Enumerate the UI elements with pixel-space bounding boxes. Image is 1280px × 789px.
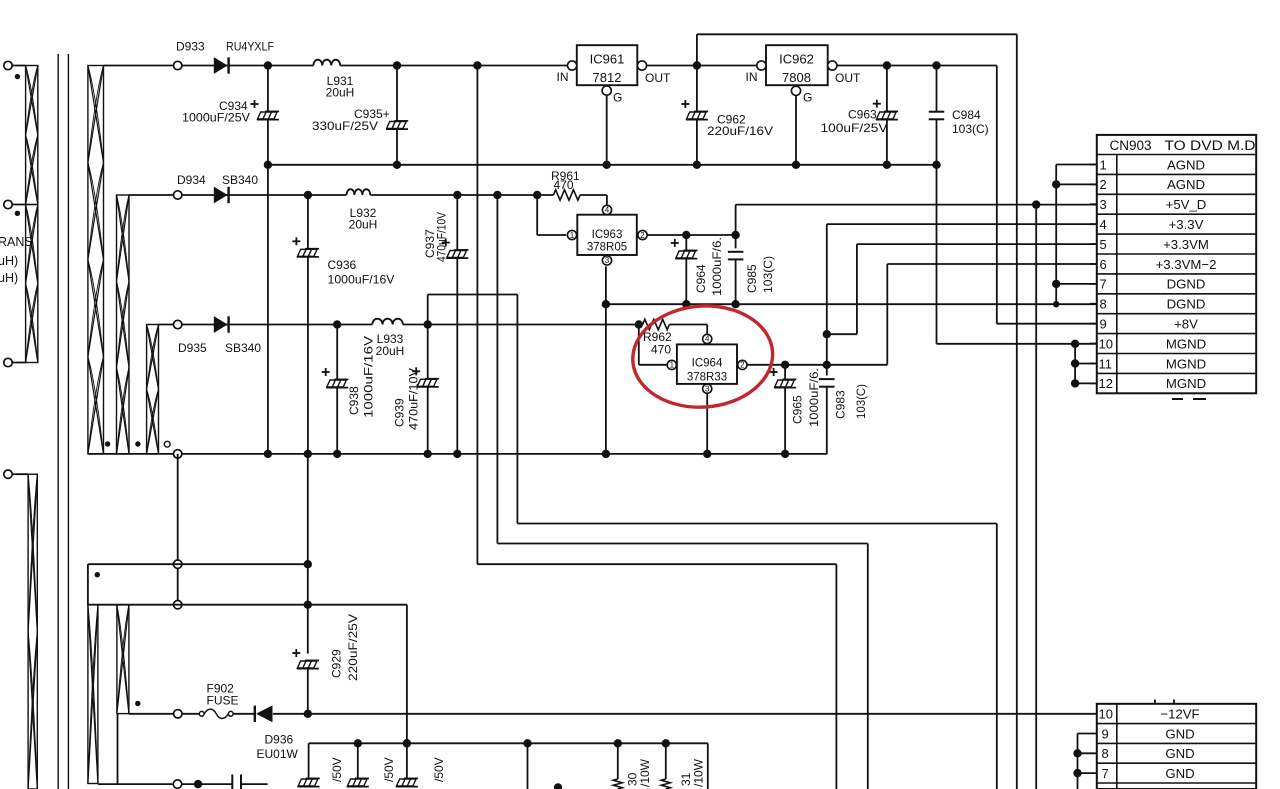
svg-text:8: 8 xyxy=(1100,297,1107,312)
svg-text:+5V_D: +5V_D xyxy=(1166,197,1207,212)
svg-text:6: 6 xyxy=(1100,257,1107,272)
marks below CN903 xyxy=(1172,398,1183,400)
svg-text:1000uF/16V: 1000uF/16V xyxy=(362,336,376,418)
terminal circle D934 rail xyxy=(174,191,182,199)
svg-text:378R05: 378R05 xyxy=(587,242,627,254)
capacitor C929 xyxy=(305,659,319,661)
wire net2 run xyxy=(497,543,867,545)
node pin2 xyxy=(1052,180,1060,188)
svg-text:IN: IN xyxy=(746,70,758,84)
svg-text:SB340: SB340 xyxy=(225,341,261,355)
wire +15V vertical xyxy=(476,66,478,565)
svg-text:220uF/16V: 220uF/16V xyxy=(707,124,773,138)
transformer bottom secondary winding A2 xyxy=(88,605,98,784)
svg-text:103(C): 103(C) xyxy=(952,122,989,136)
wire right end drop xyxy=(707,743,709,789)
svg-text:100uF/25V: 100uF/25V xyxy=(821,121,888,135)
node C938 top xyxy=(333,320,341,328)
node C985 top xyxy=(731,231,739,239)
transformer bottom primary winding xyxy=(28,474,37,789)
node link xyxy=(304,560,312,568)
diode D935 xyxy=(214,316,228,333)
transformer primary polarity dots xyxy=(15,74,20,79)
capacitor C934 xyxy=(267,66,269,112)
svg-text:MGND: MGND xyxy=(1166,376,1206,391)
inductor L933 xyxy=(372,319,403,325)
svg-text:2: 2 xyxy=(640,231,645,240)
inductor L931 xyxy=(313,60,340,66)
svg-text:/10W: /10W xyxy=(692,758,706,787)
wire IC963 pin3 ground xyxy=(605,266,607,454)
capacitor bottom 3 xyxy=(406,777,408,779)
wire pin5 +3.3VM run xyxy=(857,243,1097,245)
wire IC964 pin3 ground xyxy=(706,393,708,454)
node C935 top xyxy=(393,61,401,69)
wire 78xx ground rail xyxy=(268,164,937,166)
svg-text:470: 470 xyxy=(554,178,574,192)
svg-text:uH): uH) xyxy=(0,254,18,268)
resistor R962 xyxy=(643,319,670,329)
svg-text:C983: C983 xyxy=(834,390,848,419)
svg-text:D936: D936 xyxy=(265,733,294,747)
terminal circle bottom edge xyxy=(173,780,181,788)
svg-text:C938: C938 xyxy=(347,386,361,415)
wire primary taps xyxy=(12,65,26,67)
wire bottom edge line xyxy=(98,783,232,785)
transformer secondary winding A xyxy=(88,66,104,454)
svg-text:MGND: MGND xyxy=(1166,356,1206,371)
svg-text:11: 11 xyxy=(1099,356,1113,371)
bottom winding polarity dots xyxy=(95,572,100,577)
wire IC964 pin2 out xyxy=(747,364,887,366)
wire link corner xyxy=(87,564,89,605)
resistor R931 xyxy=(665,743,667,779)
node C964 top xyxy=(682,231,690,239)
svg-text:+3.3V: +3.3V xyxy=(1169,217,1204,232)
svg-text:1000uF/6.: 1000uF/6. xyxy=(807,368,821,427)
svg-text:RU4YXLF: RU4YXLF xyxy=(226,40,274,54)
annotation red circle around IC964 xyxy=(629,301,776,412)
regulator IC962 7808 xyxy=(766,45,828,85)
resistor R961 xyxy=(553,190,580,200)
svg-text:C936: C936 xyxy=(328,258,357,272)
node pin7 xyxy=(1052,280,1060,288)
capacitor C938 xyxy=(336,325,338,380)
wire MGND bus xyxy=(1074,344,1076,384)
capacitor bottom 2 xyxy=(357,743,359,778)
svg-text:+3.3VM−2: +3.3VM−2 xyxy=(1156,257,1217,272)
resistor R930 xyxy=(617,743,619,779)
fuse F902 xyxy=(199,711,204,716)
transformer T901 primary terminal circles xyxy=(4,61,12,69)
svg-text:AGND: AGND xyxy=(1167,157,1205,172)
wire D934 net vertical xyxy=(496,195,498,544)
svg-text:1000uF/25V: 1000uF/25V xyxy=(182,111,250,125)
svg-text:10: 10 xyxy=(1099,707,1113,722)
svg-text:GND: GND xyxy=(1165,726,1194,741)
capacitor bottom-left ceramic xyxy=(231,775,233,789)
connector CN9xx bottom table xyxy=(1097,704,1256,789)
capacitor C937 xyxy=(456,195,458,250)
terminal circle mid link xyxy=(174,560,182,568)
node C965 top xyxy=(781,361,789,369)
node C984 top xyxy=(932,61,940,69)
svg-text:470uF/10V: 470uF/10V xyxy=(407,368,421,430)
svg-text:20uH: 20uH xyxy=(376,344,405,358)
svg-text:D934: D934 xyxy=(177,173,206,187)
capacitor bottom 1 xyxy=(308,743,310,778)
node +15V branch xyxy=(473,61,481,69)
svg-text:1: 1 xyxy=(670,361,675,370)
svg-text:C964: C964 xyxy=(694,264,708,293)
wire +8V vertical xyxy=(996,66,998,324)
wire R962 pin1 feed xyxy=(638,325,640,365)
capacitor C935 xyxy=(396,66,398,122)
svg-text:+8V: +8V xyxy=(1174,316,1198,331)
svg-text:20uH: 20uH xyxy=(326,86,355,100)
regulator IC963 378R05 xyxy=(577,215,637,255)
node R961/IC963 in xyxy=(533,191,541,199)
node C963 top xyxy=(883,61,891,69)
diode D933 xyxy=(214,57,228,74)
node C929 bottom xyxy=(304,710,312,718)
svg-text:10: 10 xyxy=(1099,336,1113,351)
svg-text:1000uF/6.: 1000uF/6. xyxy=(710,237,724,296)
wire IC963 pin1 feed xyxy=(536,195,538,235)
svg-text:IC963: IC963 xyxy=(592,229,623,241)
svg-text:220uF/25V: 220uF/25V xyxy=(346,614,360,681)
wire DGND pin7 stub xyxy=(1056,283,1097,285)
transformer secondary winding B xyxy=(117,195,130,454)
regulator IC961 7812 xyxy=(577,45,638,85)
secondary polarity dots xyxy=(105,441,110,446)
svg-text:4: 4 xyxy=(1100,217,1107,232)
svg-text:DGND: DGND xyxy=(1167,297,1206,312)
svg-text:AGND: AGND xyxy=(1167,177,1205,192)
wire -12VF line xyxy=(129,713,199,715)
svg-text:GND: GND xyxy=(1165,746,1194,761)
terminal circle D935 rail xyxy=(174,320,182,328)
wire DGND rail xyxy=(606,303,1097,305)
node rail dots xyxy=(354,739,362,747)
svg-text:C984: C984 xyxy=(952,108,981,122)
svg-text:/10W: /10W xyxy=(638,758,652,787)
node C983 top xyxy=(823,361,831,369)
wire IC962 out rail xyxy=(837,65,997,67)
capacitor C939 xyxy=(427,325,429,379)
node pin5 branch xyxy=(823,330,831,338)
CN903 pin stubs xyxy=(1090,163,1097,165)
terminal circle at winding top line xyxy=(174,601,182,609)
wire +12V top run xyxy=(697,33,1017,35)
ground rail junction dots xyxy=(264,161,272,169)
svg-text:FUSE: FUSE xyxy=(207,694,239,708)
wire pin5 branch xyxy=(827,333,857,335)
wire +5V_D vertical bus xyxy=(1035,205,1037,789)
wire IC962 G to ground rail xyxy=(795,95,797,164)
svg-text:GND: GND xyxy=(1165,766,1194,781)
node pin12 xyxy=(1071,379,1079,387)
node C934 top xyxy=(264,61,272,69)
wire pin6 +3.3VM-2 run xyxy=(887,263,1097,265)
wire R962 to pin4 xyxy=(706,325,708,335)
capacitor C964 xyxy=(685,235,687,250)
svg-text:IC961: IC961 xyxy=(590,52,625,67)
regulator IC964 378R33 xyxy=(677,344,737,384)
wire pin6 riser xyxy=(886,264,888,365)
svg-text:DGND: DGND xyxy=(1167,277,1206,292)
node C939 top xyxy=(424,320,432,328)
node C929 top xyxy=(304,601,312,609)
svg-text:D933: D933 xyxy=(176,40,205,54)
svg-text:/50V: /50V xyxy=(382,757,396,782)
svg-text:RANS: RANS xyxy=(0,235,33,249)
svg-text:OUT: OUT xyxy=(835,71,861,85)
svg-text:/50V: /50V xyxy=(432,757,446,782)
svg-text:EU01W: EU01W xyxy=(257,747,299,761)
connector CN903 TO DVD M.D table xyxy=(1097,135,1256,393)
wire pin4 +3.3V run xyxy=(827,223,1097,225)
wire pin7b stub xyxy=(1078,772,1097,774)
wire pin11 stub xyxy=(1075,363,1097,365)
transformer core lines xyxy=(57,54,59,789)
svg-text:12: 12 xyxy=(1099,376,1113,391)
wire top rail from winding A xyxy=(104,65,314,67)
wire +5V_D riser xyxy=(735,205,737,235)
capacitor C984 xyxy=(936,66,938,112)
wire +12V vertical bus xyxy=(1016,34,1018,789)
wire bottom ground rail xyxy=(88,453,827,455)
wire D935 jog xyxy=(427,295,429,325)
svg-text:D935: D935 xyxy=(178,341,207,355)
terminal circle bottom rail xyxy=(174,450,182,458)
svg-text:C963: C963 xyxy=(848,108,877,122)
node bottom edge xyxy=(194,780,202,788)
diode D936 xyxy=(254,706,256,722)
wire +5V_D run to pin 3 xyxy=(736,204,1097,206)
node R962 corner xyxy=(635,320,643,328)
wire IC963 pin2 out xyxy=(647,234,735,236)
svg-text:3: 3 xyxy=(705,385,710,394)
node pin8 end xyxy=(1053,301,1059,307)
svg-text:OUT: OUT xyxy=(645,71,671,85)
wire C929 chain xyxy=(307,454,309,654)
wire B2 bottom drop xyxy=(117,714,119,785)
wire +12V riser xyxy=(696,34,698,65)
svg-text:IC964: IC964 xyxy=(692,357,723,369)
node pin11 xyxy=(1071,359,1079,367)
svg-text:8: 8 xyxy=(1102,746,1109,761)
svg-text:IC962: IC962 xyxy=(779,52,814,67)
node bottom rail dot xyxy=(403,739,411,747)
node pin8b xyxy=(1073,749,1081,757)
transformer secondary winding C xyxy=(147,325,159,454)
diode D934 xyxy=(214,187,228,204)
svg-text:IN: IN xyxy=(557,70,569,84)
node C936 top xyxy=(304,191,312,199)
svg-text:2: 2 xyxy=(740,361,745,370)
transformer bottom secondary winding B2 xyxy=(117,605,129,714)
svg-text:9: 9 xyxy=(1100,316,1107,331)
svg-text:MGND: MGND xyxy=(1166,336,1206,351)
svg-text:G: G xyxy=(803,91,812,105)
svg-text:103(C): 103(C) xyxy=(854,384,868,419)
svg-text:5: 5 xyxy=(1100,237,1107,252)
svg-text:uH): uH) xyxy=(0,271,18,285)
wire net3 run xyxy=(477,563,836,565)
svg-text:330uF/25V: 330uF/25V xyxy=(312,119,378,133)
capacitor C985 xyxy=(735,235,737,248)
svg-text:SB340: SB340 xyxy=(222,173,258,187)
wire winding link line xyxy=(88,563,308,565)
svg-text:2: 2 xyxy=(1100,177,1107,192)
inductor L932 xyxy=(347,189,371,195)
svg-text:7: 7 xyxy=(1100,277,1107,292)
terminal circle fuse line xyxy=(174,710,182,718)
svg-text:G: G xyxy=(613,91,622,105)
transformer primary winding upper xyxy=(26,66,38,205)
secondary open dot xyxy=(164,441,170,447)
svg-text:9: 9 xyxy=(1102,726,1109,741)
svg-text:C929: C929 xyxy=(330,649,344,678)
node pin10 xyxy=(1071,340,1079,348)
wire pin12 stub xyxy=(1075,382,1097,384)
svg-text:7808: 7808 xyxy=(782,70,811,85)
svg-text:4: 4 xyxy=(705,335,710,344)
capacitor C983 xyxy=(826,224,828,375)
svg-text:1: 1 xyxy=(570,231,575,240)
svg-text:3: 3 xyxy=(1100,197,1107,212)
svg-text:C965: C965 xyxy=(791,395,805,424)
capacitor C962 xyxy=(696,66,698,112)
capacitor C936 xyxy=(307,195,309,249)
svg-text:C939: C939 xyxy=(393,398,407,427)
svg-text:4: 4 xyxy=(605,206,610,215)
wire MGND run to pin 10 xyxy=(937,343,1097,345)
node +5V_D bus xyxy=(1032,200,1040,208)
wire IC961 G to ground rail xyxy=(606,95,608,165)
svg-text:103(C): 103(C) xyxy=(761,256,775,293)
wire +8V to pin 9 xyxy=(997,323,1097,325)
capacitor C963 xyxy=(886,66,888,112)
svg-text:TO DVD M.D: TO DVD M.D xyxy=(1165,138,1256,153)
svg-text:−12VF: −12VF xyxy=(1160,707,1199,722)
capacitor C965 xyxy=(784,365,786,380)
svg-text:CN903: CN903 xyxy=(1110,138,1152,153)
rail2 junction dots xyxy=(602,300,610,308)
svg-text:3: 3 xyxy=(605,256,610,265)
svg-text:1000uF/16V: 1000uF/16V xyxy=(328,273,395,287)
wire IC961 out to IC962 in xyxy=(647,65,757,67)
node C937 top xyxy=(453,191,461,199)
svg-text:7: 7 xyxy=(1102,766,1109,781)
wire pin8b stub xyxy=(1078,752,1097,754)
svg-text:7812: 7812 xyxy=(593,70,622,85)
svg-text:/50V: /50V xyxy=(330,757,344,782)
marks above bottom table xyxy=(1154,700,1156,704)
bottom rail junction dots xyxy=(264,450,272,458)
svg-text:470: 470 xyxy=(651,343,671,357)
wire Lb corner down xyxy=(406,605,408,778)
node D934 branch xyxy=(493,191,501,199)
svg-text:20uH: 20uH xyxy=(349,218,378,232)
node IC961 out junction xyxy=(693,61,701,69)
node pin7b xyxy=(1073,769,1081,777)
wire bottom cap rail xyxy=(309,742,708,744)
wire R961 to pin4 xyxy=(606,195,608,206)
wire AGND pin2 stub xyxy=(1056,183,1097,185)
wire AGND pin1 link xyxy=(1056,164,1097,166)
wire jog vertical down xyxy=(516,295,518,524)
svg-text:C985: C985 xyxy=(745,264,759,293)
wire bottom-rail drop xyxy=(177,454,179,605)
svg-text:470uF/10V: 470uF/10V xyxy=(435,212,449,262)
terminal circle on top rail xyxy=(174,61,182,69)
wire drop to edge xyxy=(527,743,529,789)
svg-text:+3.3VM: +3.3VM xyxy=(1163,237,1209,252)
wire D935 rail xyxy=(159,324,373,326)
wire bottom winding top rail xyxy=(88,604,407,606)
svg-text:1: 1 xyxy=(1100,157,1107,172)
wire net1 run xyxy=(517,523,996,525)
node near bottom edge xyxy=(554,783,562,789)
wire pin9b link xyxy=(1078,733,1097,735)
wire D934 rail xyxy=(129,194,347,196)
svg-text:378R33: 378R33 xyxy=(687,371,727,383)
